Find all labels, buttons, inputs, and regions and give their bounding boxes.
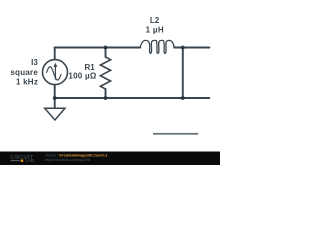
- wire top rail right segment: [174, 47, 209, 49]
- wire left vertical below source: [54, 85, 56, 99]
- floating wire: [153, 133, 198, 135]
- node dot R1 bottom: [104, 96, 108, 100]
- resistor R1: [100, 57, 110, 89]
- inductor L2: [140, 40, 174, 53]
- current source I3: [43, 60, 68, 85]
- ground: [45, 108, 65, 120]
- wire left vertical above source: [54, 48, 56, 60]
- node dot R1 top: [104, 46, 108, 50]
- svg-text:1 µH: 1 µH: [146, 26, 164, 35]
- svg-text:1 kHz: 1 kHz: [16, 77, 38, 86]
- svg-text:LAB: LAB: [25, 158, 34, 163]
- sine wave inside source: [46, 67, 61, 80]
- svg-text:100 µΩ: 100 µΩ: [68, 71, 96, 80]
- wire right vertical: [182, 48, 184, 99]
- node dot right top: [181, 46, 185, 50]
- wire resistor bottom lead: [105, 89, 107, 98]
- arrow inside source: [54, 63, 58, 80]
- wire bottom rail: [55, 97, 210, 99]
- watermark logo CIRCUITLAB: [10, 155, 34, 163]
- svg-text:square: square: [10, 68, 38, 77]
- wire top rail left segment: [55, 47, 141, 49]
- svg-text:I3: I3: [31, 58, 38, 67]
- node dot ground: [53, 96, 57, 100]
- svg-text:htip://circuitlab.com/cpq7hb: htip://circuitlab.com/cpq7hb: [45, 158, 90, 162]
- node dot right bottom: [181, 96, 185, 100]
- wire ground stem: [54, 98, 56, 108]
- wire resistor top lead: [105, 48, 107, 58]
- svg-text:L2: L2: [150, 16, 160, 25]
- watermark bar: [0, 152, 220, 166]
